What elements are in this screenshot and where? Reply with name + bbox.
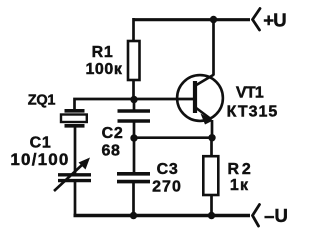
svg-text:+U: +U	[263, 10, 286, 31]
label C1	[30, 135, 52, 152]
label C2	[102, 125, 124, 142]
terminal +U chevron	[253, 9, 261, 31]
wire: C2 to C3 lead	[133, 122, 136, 173]
wire: C1 bottom lead	[74, 181, 77, 216]
resistor R2	[203, 156, 218, 195]
label R2	[227, 161, 253, 178]
svg-text:ZQ1: ZQ1	[28, 93, 56, 109]
node: C2/C3 junction	[130, 134, 137, 141]
label -U	[264, 205, 288, 226]
wire: collector lead	[212, 20, 215, 76]
wire: crystal to C1 lead	[74, 128, 77, 175]
node: emitter junction	[208, 134, 215, 141]
node: R2 junction on -U rail	[208, 212, 215, 219]
capacitor C2	[118, 111, 151, 121]
wire: +U top rail	[133, 18, 250, 21]
label VT1	[236, 85, 264, 102]
svg-text:68: 68	[102, 143, 121, 160]
capacitor C1 (variable)	[54, 158, 91, 192]
wire: R2 top lead	[210, 138, 213, 156]
transistor VT1	[177, 75, 223, 125]
value 10/100	[10, 150, 69, 169]
wire: R2 bottom lead	[210, 196, 213, 216]
value 68	[102, 143, 121, 160]
svg-text:R2: R2	[227, 161, 253, 178]
wire: R1 bottom lead	[132, 81, 135, 100]
value 1к	[230, 177, 249, 194]
terminal -U chevron	[253, 205, 260, 227]
svg-text:100к: 100к	[85, 61, 122, 78]
svg-text:–U: –U	[264, 205, 288, 226]
wire: emitter lead	[211, 120, 214, 138]
crystal ZQ1	[61, 111, 87, 126]
value 270	[152, 179, 182, 196]
label R1	[92, 44, 114, 61]
resistor R1	[128, 41, 140, 80]
label ZQ1	[28, 93, 56, 109]
label C3	[157, 161, 179, 178]
svg-text:R1: R1	[92, 44, 114, 61]
wire: junction to emitter	[134, 136, 212, 139]
wire: C2 top lead	[133, 99, 136, 110]
wire: -U bottom rail	[74, 214, 251, 218]
capacitor C3	[117, 174, 150, 182]
svg-text:VT1: VT1	[236, 85, 264, 102]
svg-text:КТ315: КТ315	[227, 104, 279, 121]
node: collector junction on +U rail	[210, 16, 217, 23]
svg-text:C2: C2	[102, 125, 124, 142]
wire: base wire with crystal corner	[75, 99, 196, 110]
node: base junction	[130, 96, 137, 103]
svg-text:C1: C1	[30, 135, 52, 152]
svg-text:1к: 1к	[230, 177, 249, 194]
label +U	[263, 10, 286, 31]
wire: C3 bottom lead	[132, 182, 135, 216]
value 100к	[85, 61, 122, 78]
wire: R1 top lead	[132, 18, 135, 41]
svg-text:C3: C3	[157, 161, 179, 178]
svg-text:270: 270	[152, 179, 182, 196]
node: C3 junction on -U rail	[130, 212, 137, 219]
value КТ315	[227, 104, 279, 121]
svg-text:10/100: 10/100	[10, 150, 69, 169]
